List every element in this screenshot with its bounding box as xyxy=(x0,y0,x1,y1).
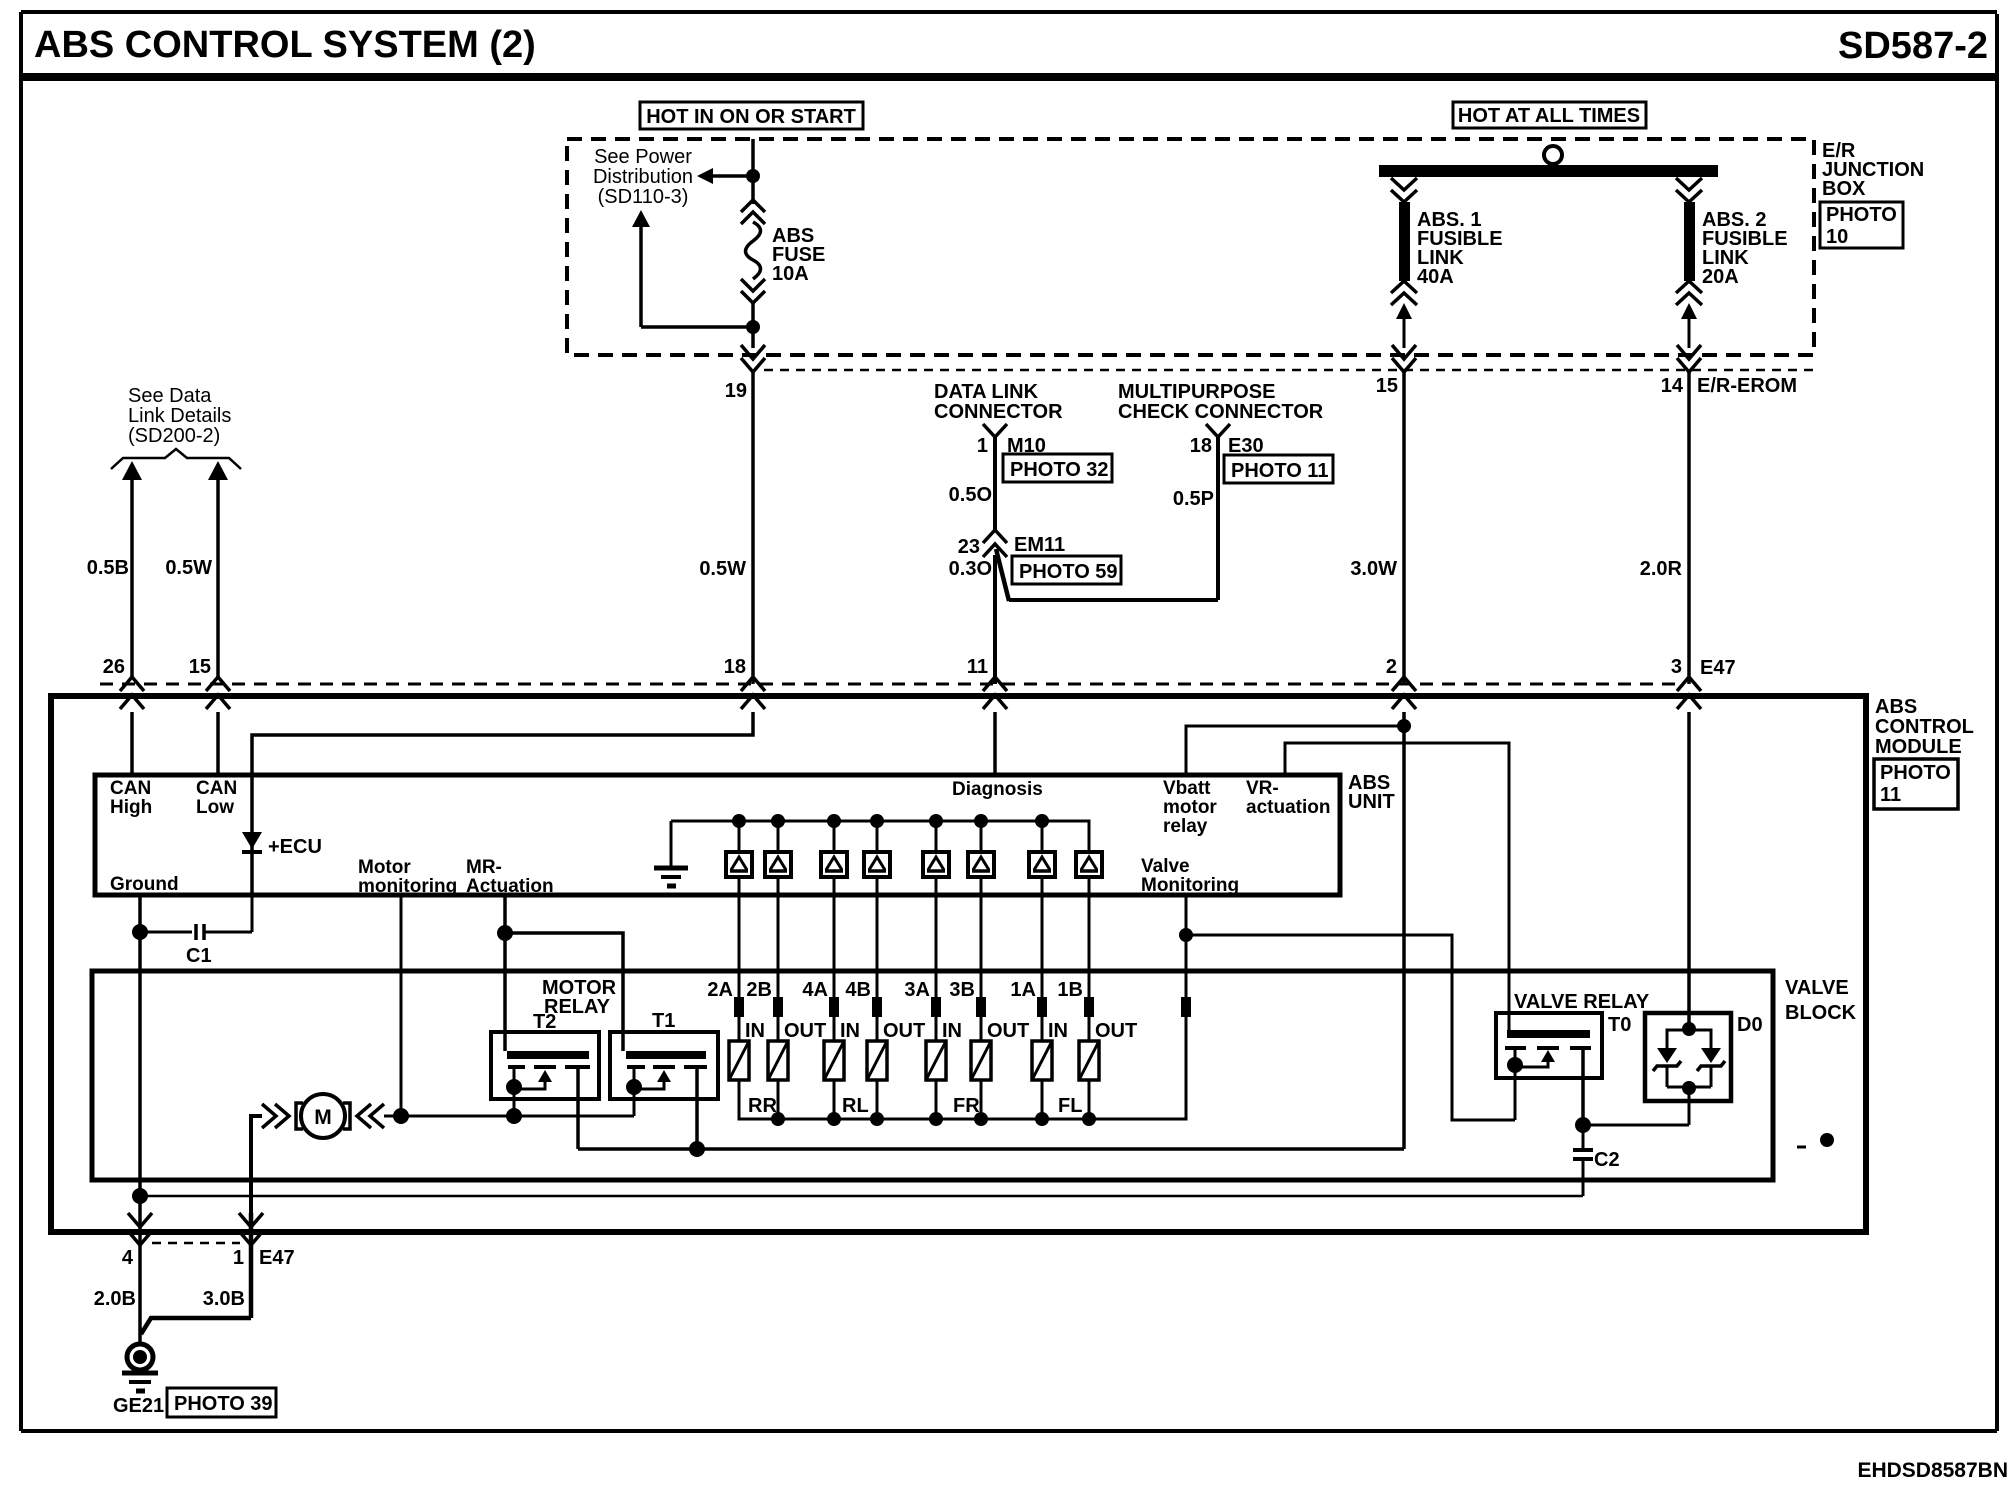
svg-text:CONNECTOR: CONNECTOR xyxy=(934,401,1063,423)
diagnosis diode 2 xyxy=(765,821,791,895)
module pin 3 xyxy=(1671,656,1701,709)
svg-text:Monitoring: Monitoring xyxy=(1141,875,1239,896)
photo ref PHOTO 39 xyxy=(167,1388,276,1417)
svg-text:18: 18 xyxy=(724,656,746,678)
wire T1 contact output to wire B xyxy=(695,1099,699,1149)
svg-text:EHDSD8587BN: EHDSD8587BN xyxy=(1857,1459,2008,1482)
svg-text:1A: 1A xyxy=(1010,979,1036,1001)
solenoid valve 1A IN xyxy=(1010,895,1068,1119)
svg-text:DATA LINK: DATA LINK xyxy=(934,381,1039,403)
solenoid valve 3B OUT xyxy=(949,895,1029,1119)
label VALVE BLOCK xyxy=(1785,977,1857,1024)
wire MR-Actuation to motor relay coils xyxy=(503,895,507,1051)
fuse F1 ABS FUSE 10A symbol xyxy=(741,200,765,322)
svg-text:E47: E47 xyxy=(259,1247,295,1269)
svg-text:HOT AT ALL TIMES: HOT AT ALL TIMES xyxy=(1458,105,1640,127)
junction node T1 contact output xyxy=(689,1141,705,1157)
label Vbatt motor relay xyxy=(1163,778,1217,837)
module pin 11 xyxy=(967,656,1007,709)
label ABS. 1 FUSIBLE LINK 40A xyxy=(1417,209,1503,288)
svg-text:VALVE RELAY: VALVE RELAY xyxy=(1514,991,1650,1013)
solenoid valve 2B OUT xyxy=(746,895,826,1119)
ABS control module connector dashed line xyxy=(100,683,1680,686)
capacitor C2 xyxy=(1573,1125,1620,1196)
photo ref PHOTO 11 (module) xyxy=(1874,759,1958,809)
label ABS FUSE 10A xyxy=(772,225,825,285)
connector EM11 pin 23 xyxy=(958,530,1065,558)
svg-text:EM11: EM11 xyxy=(1014,534,1065,556)
svg-text:M: M xyxy=(314,1106,332,1129)
label CAN High xyxy=(110,778,152,818)
svg-text:40A: 40A xyxy=(1417,266,1454,288)
junction node valve return bus xyxy=(827,1112,841,1126)
harness connector dashed line (E/R-EROM row) xyxy=(764,369,1814,372)
module pin 18 xyxy=(724,656,765,709)
wire 3.0B pin 1 to GE21 xyxy=(203,1288,245,1310)
label RR xyxy=(748,1095,777,1117)
module pin 4 xyxy=(122,1213,152,1269)
svg-text:+ECU: +ECU xyxy=(268,836,322,858)
wire Vbatt motor relay pin xyxy=(1186,726,1404,775)
photo ref PHOTO 32 xyxy=(1003,454,1112,482)
svg-text:E47: E47 xyxy=(1700,657,1736,679)
junction node diagnosis bus xyxy=(771,814,785,828)
svg-text:IN: IN xyxy=(840,1020,860,1042)
junction node valve return bus xyxy=(771,1112,785,1126)
diagnosis diode 7 xyxy=(1029,821,1055,895)
label E47 (bottom) xyxy=(259,1247,295,1269)
svg-text:Vbatt: Vbatt xyxy=(1163,778,1211,799)
valve block box xyxy=(92,971,1773,1180)
junction node diagnosis bus xyxy=(929,814,943,828)
svg-text:MULTIPURPOSE: MULTIPURPOSE xyxy=(1118,381,1275,403)
svg-text:FR: FR xyxy=(953,1095,980,1117)
svg-text:0.5O: 0.5O xyxy=(949,484,992,506)
svg-text:PHOTO 39: PHOTO 39 xyxy=(174,1393,273,1415)
svg-text:IN: IN xyxy=(942,1020,962,1042)
solenoid valve 2A IN xyxy=(707,895,765,1119)
svg-text:0.5P: 0.5P xyxy=(1173,488,1214,510)
label Valve Monitoring xyxy=(1141,856,1239,896)
wire pin 3 to D0 xyxy=(1687,712,1691,1029)
svg-text:High: High xyxy=(110,797,152,818)
svg-text:C1: C1 xyxy=(186,945,212,967)
capacitor C1 xyxy=(140,895,252,967)
label FR xyxy=(953,1095,980,1117)
svg-text:BLOCK: BLOCK xyxy=(1785,1002,1857,1024)
brace over data link wires xyxy=(111,449,241,469)
svg-text:Valve: Valve xyxy=(1141,856,1190,877)
svg-text:actuation: actuation xyxy=(1246,797,1330,818)
solenoid valve 1B OUT xyxy=(1057,895,1137,1119)
svg-text:C2: C2 xyxy=(1594,1149,1620,1171)
svg-text:Link Details: Link Details xyxy=(128,405,231,427)
label E/R-EROM xyxy=(1697,375,1797,397)
junction node ground return xyxy=(132,1188,148,1204)
wire B relay contact supply xyxy=(578,1147,1404,1151)
diagnosis diode 1 xyxy=(726,821,752,895)
label MOTOR RELAY xyxy=(542,977,617,1018)
solenoid valve 3A IN xyxy=(904,895,962,1119)
relay T2 (motor relay) xyxy=(491,1011,599,1099)
fusible link ABS. 1 40A xyxy=(1391,178,1417,348)
E/R junction box label xyxy=(1822,140,1924,200)
connector dashed line pins 4-1 xyxy=(152,1242,240,1245)
junction node valve return bus xyxy=(929,1112,943,1126)
arrow to See Power Distribution xyxy=(697,168,753,184)
label ABS UNIT xyxy=(1348,772,1395,813)
svg-text:1: 1 xyxy=(977,435,988,457)
svg-text:2A: 2A xyxy=(707,979,733,1001)
svg-text:18: 18 xyxy=(1190,435,1212,457)
module pin 1 xyxy=(233,1213,263,1269)
junction node valve return bus xyxy=(974,1112,988,1126)
label E47 (top) xyxy=(1700,657,1736,679)
connector pin 14 (E/R junction box exit) xyxy=(1661,345,1701,397)
svg-text:15: 15 xyxy=(1376,375,1398,397)
svg-text:ABS CONTROL SYSTEM (2): ABS CONTROL SYSTEM (2) xyxy=(34,24,536,66)
svg-text:(SD200-2): (SD200-2) xyxy=(128,425,220,447)
svg-text:0.5W: 0.5W xyxy=(165,557,212,579)
label box HOT AT ALL TIMES xyxy=(1453,102,1646,128)
battery feed ring terminal xyxy=(1544,146,1562,164)
svg-text:D0: D0 xyxy=(1737,1014,1763,1036)
relay T1 (motor relay) xyxy=(610,1010,718,1099)
svg-text:3A: 3A xyxy=(904,979,930,1001)
relay T0 (valve relay) xyxy=(1496,1013,1631,1125)
svg-text:19: 19 xyxy=(725,380,747,402)
wire motor to ground pin 1 xyxy=(141,1116,262,1334)
wire Valve Monitoring to valve return bus xyxy=(1181,895,1191,1119)
connector pin 15 (E/R junction box exit) xyxy=(1376,345,1416,397)
junction node MR actuation xyxy=(497,925,513,941)
wire Ground from unit to GE21 xyxy=(138,895,142,1344)
ground GE21 xyxy=(113,1344,164,1417)
label VR-actuation xyxy=(1246,778,1330,818)
wire from hot feed to ABS fuse xyxy=(751,139,755,204)
svg-text:PHOTO 11: PHOTO 11 xyxy=(1231,460,1328,482)
svg-text:23: 23 xyxy=(958,536,980,558)
wire VR-actuation to valve relay coil xyxy=(1285,743,1509,1030)
svg-text:VR-: VR- xyxy=(1246,778,1279,799)
svg-text:IN: IN xyxy=(1048,1020,1068,1042)
svg-text:UNIT: UNIT xyxy=(1348,791,1395,813)
wire 0.5O label xyxy=(949,484,992,506)
svg-text:ABS: ABS xyxy=(1875,696,1917,718)
svg-text:3.0W: 3.0W xyxy=(1350,558,1397,580)
svg-text:OUT: OUT xyxy=(987,1020,1029,1042)
arrow up from fuse output to power distribution xyxy=(632,210,753,327)
junction node valve return bus xyxy=(870,1112,884,1126)
label Diagnosis xyxy=(952,779,1043,800)
svg-text:Distribution: Distribution xyxy=(593,166,693,188)
svg-text:Low: Low xyxy=(196,797,234,818)
svg-text:FL: FL xyxy=(1058,1095,1082,1117)
label ABS. 2 FUSIBLE LINK 20A xyxy=(1702,209,1788,288)
wire from module pin 2 to relays (Vbatt feed) xyxy=(1402,712,1406,1149)
battery bus bar xyxy=(1379,165,1718,177)
label MR-Actuation xyxy=(466,857,554,897)
wire ground return (C2 to ground) xyxy=(140,1195,1583,1198)
svg-text:3: 3 xyxy=(1671,656,1682,678)
junction node T2 contact pin xyxy=(506,1108,522,1124)
wire T2 contact output to wire B xyxy=(576,1099,580,1149)
diagnosis diode 3 xyxy=(821,821,847,895)
svg-text:HOT IN ON OR START: HOT IN ON OR START xyxy=(646,106,856,128)
label RL xyxy=(842,1095,869,1117)
wire MR-Actuation branch to T1 coil xyxy=(505,933,623,1051)
svg-text:PHOTO 59: PHOTO 59 xyxy=(1019,561,1118,583)
wire valve relay common to valve monitoring xyxy=(1186,935,1515,1120)
svg-text:10: 10 xyxy=(1826,226,1848,248)
solenoid valve 4A IN xyxy=(802,895,860,1119)
svg-text:PHOTO: PHOTO xyxy=(1826,204,1897,226)
svg-text:relay: relay xyxy=(1163,816,1208,837)
junction node C1 xyxy=(132,924,148,940)
svg-text:15: 15 xyxy=(189,656,211,678)
svg-text:11: 11 xyxy=(967,656,988,678)
wire 0.5W CAN Low to data link (arrow up) xyxy=(165,461,228,677)
svg-text:T2: T2 xyxy=(533,1011,556,1033)
junction node diagnosis bus xyxy=(1035,814,1049,828)
svg-text:Actuation: Actuation xyxy=(466,876,554,897)
svg-text:CAN: CAN xyxy=(110,778,151,799)
junction node diagnosis bus xyxy=(974,814,988,828)
svg-text:OUT: OUT xyxy=(883,1020,925,1042)
ABS unit box xyxy=(95,775,1340,895)
svg-text:4: 4 xyxy=(122,1247,134,1269)
solenoid valve 4B OUT xyxy=(845,895,925,1119)
junction node diagnosis bus xyxy=(870,814,884,828)
wire A motor supply from relay contacts xyxy=(384,1115,634,1118)
photo ref PHOTO 11 xyxy=(1224,455,1333,483)
svg-text:motor: motor xyxy=(1163,797,1217,818)
connector pin 19 (E/R junction box exit) xyxy=(725,327,765,402)
junction node diagnosis bus xyxy=(827,814,841,828)
svg-text:MR-: MR- xyxy=(466,857,502,878)
svg-text:IN: IN xyxy=(745,1020,765,1042)
svg-text:Diagnosis: Diagnosis xyxy=(952,779,1043,800)
label VALVE RELAY xyxy=(1514,991,1650,1013)
svg-text:4A: 4A xyxy=(802,979,828,1001)
svg-text:26: 26 xyxy=(103,656,125,678)
svg-text:E/R-EROM: E/R-EROM xyxy=(1697,375,1797,397)
svg-text:4B: 4B xyxy=(845,979,871,1001)
svg-text:(SD110-3): (SD110-3) xyxy=(598,186,689,208)
junction node motor monitoring tap xyxy=(393,1108,409,1124)
wire 2.0R from fusible link 20A to module pin 3 xyxy=(1640,372,1689,684)
svg-text:2B: 2B xyxy=(746,979,772,1001)
label See Data Link Details (SD200-2) xyxy=(128,385,231,447)
wire T2 common pin to motor wire xyxy=(513,1099,516,1116)
junction node valve monitoring / valve relay xyxy=(1179,928,1193,942)
ground symbol (diagnosis bus) xyxy=(654,821,688,886)
diagnosis common bus xyxy=(671,821,1089,852)
svg-text:OUT: OUT xyxy=(1095,1020,1137,1042)
svg-text:2: 2 xyxy=(1386,656,1397,678)
photo ref PHOTO 10 xyxy=(1820,202,1903,248)
svg-text:1: 1 xyxy=(233,1247,244,1269)
diagnosis diode 8 xyxy=(1076,821,1102,895)
svg-text:BOX: BOX xyxy=(1822,178,1866,200)
svg-text:OUT: OUT xyxy=(784,1020,826,1042)
ABS control module box xyxy=(51,696,1866,1232)
svg-text:Ground: Ground xyxy=(110,874,179,895)
wire Motor monitoring to motor xyxy=(400,895,403,1116)
svg-text:MODULE: MODULE xyxy=(1875,736,1962,758)
svg-text:PHOTO 32: PHOTO 32 xyxy=(1010,459,1109,481)
connector M10 pin 1 (data link connector) xyxy=(977,424,1046,532)
svg-text:2.0B: 2.0B xyxy=(94,1288,136,1310)
label Ground xyxy=(110,874,179,895)
wire 0.5B CAN High to data link (arrow up) xyxy=(87,461,142,677)
wire 3.0W from fusible link 40A to module pin 2 xyxy=(1350,372,1404,684)
wire T1 common riser xyxy=(633,1099,636,1116)
svg-text:CONTROL: CONTROL xyxy=(1875,716,1974,738)
label CAN Low xyxy=(196,778,237,818)
svg-text:Motor: Motor xyxy=(358,857,411,878)
motor M xyxy=(262,1094,384,1138)
svg-text:11: 11 xyxy=(1880,784,1901,806)
label DATA LINK CONNECTOR xyxy=(934,381,1063,423)
svg-text:10A: 10A xyxy=(772,263,809,285)
label Motor monitoring xyxy=(358,857,457,897)
svg-text:monitoring: monitoring xyxy=(358,876,457,897)
svg-text:T1: T1 xyxy=(652,1010,675,1032)
wire pin 18 to +ECU xyxy=(252,712,753,775)
svg-text:0.5W: 0.5W xyxy=(699,558,746,580)
label box HOT IN ON OR START xyxy=(640,102,863,129)
svg-text:SD587-2: SD587-2 xyxy=(1838,25,1988,67)
junction node valve return bus xyxy=(1035,1112,1049,1126)
junction node diagnosis bus xyxy=(732,814,746,828)
svg-text:0.3O: 0.3O xyxy=(949,558,992,580)
fusible link ABS. 2 20A xyxy=(1676,178,1702,348)
wire D0 to C2 node xyxy=(1583,1124,1689,1127)
wire 0.3O from EM11 to module pin 11 xyxy=(949,555,995,684)
diagnosis diode 6 xyxy=(968,821,994,895)
module pin 15 xyxy=(189,656,230,709)
diagnosis diode 4 xyxy=(864,821,890,895)
svg-text:RR: RR xyxy=(748,1095,777,1117)
svg-text:T0: T0 xyxy=(1608,1014,1631,1036)
svg-text:3.0B: 3.0B xyxy=(203,1288,245,1310)
svg-text:14: 14 xyxy=(1661,375,1684,397)
wire CAN Low pin 15 to unit xyxy=(216,712,220,775)
diode +ECU xyxy=(242,775,322,895)
svg-text:20A: 20A xyxy=(1702,266,1739,288)
junction node Vbatt feed split xyxy=(1397,719,1411,733)
label MULTIPURPOSE CHECK CONNECTOR xyxy=(1118,381,1324,423)
wire 0.5W from pin 19 to module pin 18 xyxy=(699,372,753,684)
svg-text:CHECK CONNECTOR: CHECK CONNECTOR xyxy=(1118,401,1324,423)
module pin 2 xyxy=(1386,656,1416,709)
svg-text:0.5B: 0.5B xyxy=(87,557,129,579)
wire pin 11 to Diagnosis xyxy=(993,712,997,775)
svg-text:2.0R: 2.0R xyxy=(1640,558,1683,580)
svg-text:See Power: See Power xyxy=(594,146,692,168)
scan artifact dot xyxy=(1797,1133,1834,1147)
svg-text:1B: 1B xyxy=(1057,979,1083,1001)
junction node at fuse bottom xyxy=(746,320,760,334)
label See Power Distribution (SD110-3) xyxy=(593,146,693,208)
module pin 26 xyxy=(103,656,144,709)
label EHDSD8587BN xyxy=(1857,1459,2008,1482)
junction node valve return bus xyxy=(1082,1112,1096,1126)
svg-text:See Data: See Data xyxy=(128,385,212,407)
connector E30 pin 18 (multipurpose check connector) xyxy=(1190,424,1264,457)
junction node at fuse top xyxy=(746,169,760,183)
E/R junction box dashed boundary xyxy=(567,139,1814,355)
svg-text:PHOTO: PHOTO xyxy=(1880,762,1951,784)
wire 0.5P from E30 to EM11 xyxy=(996,437,1218,601)
label FL xyxy=(1058,1095,1082,1117)
wire CAN High pin 26 to unit xyxy=(130,712,134,775)
svg-text:VALVE: VALVE xyxy=(1785,977,1849,999)
photo ref PHOTO 59 xyxy=(1012,556,1121,584)
diagnosis diode 5 xyxy=(923,821,949,895)
junction node C2 top xyxy=(1575,1117,1591,1133)
wire 2.0B pin 4 to GE21 xyxy=(94,1288,136,1310)
svg-text:RL: RL xyxy=(842,1095,869,1117)
svg-text:CAN: CAN xyxy=(196,778,237,799)
diode block D0 xyxy=(1645,1013,1763,1125)
svg-text:GE21: GE21 xyxy=(113,1395,164,1417)
svg-text:3B: 3B xyxy=(949,979,975,1001)
valve return bus xyxy=(739,1080,1186,1119)
label ABS CONTROL MODULE xyxy=(1875,696,1974,758)
